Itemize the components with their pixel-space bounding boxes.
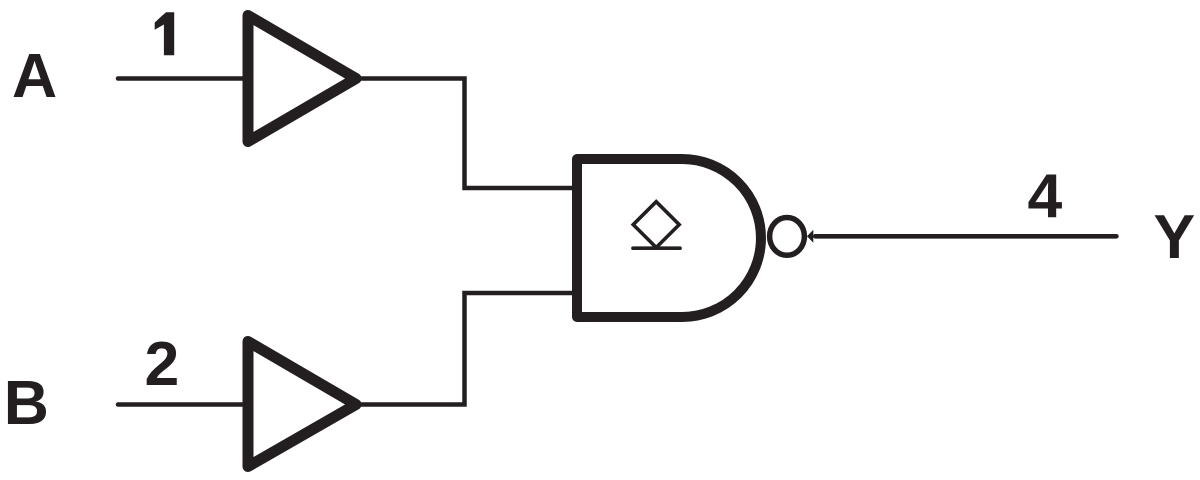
buffer U1B (input B) [248,342,356,467]
pin 1 label [155,12,175,55]
buffer U1A (input A) [248,16,356,142]
svg-text:4: 4 [1028,161,1063,231]
svg-text:2: 2 [145,329,180,399]
open-drain underline [633,246,680,250]
wire A input [118,76,247,81]
NAND gate body [577,159,761,317]
svg-text:Y: Y [1154,202,1196,272]
svg-text:A: A [12,41,57,111]
inversion bubble [770,218,805,256]
wire from buffer A to upper NAND input [356,79,573,189]
wire B input [118,402,247,407]
svg-text:B: B [4,368,49,438]
wire Y output [815,234,1116,239]
output junction arrowhead [807,230,813,243]
wire from buffer B to lower NAND input [356,293,573,405]
open-drain diamond symbol [633,202,679,248]
